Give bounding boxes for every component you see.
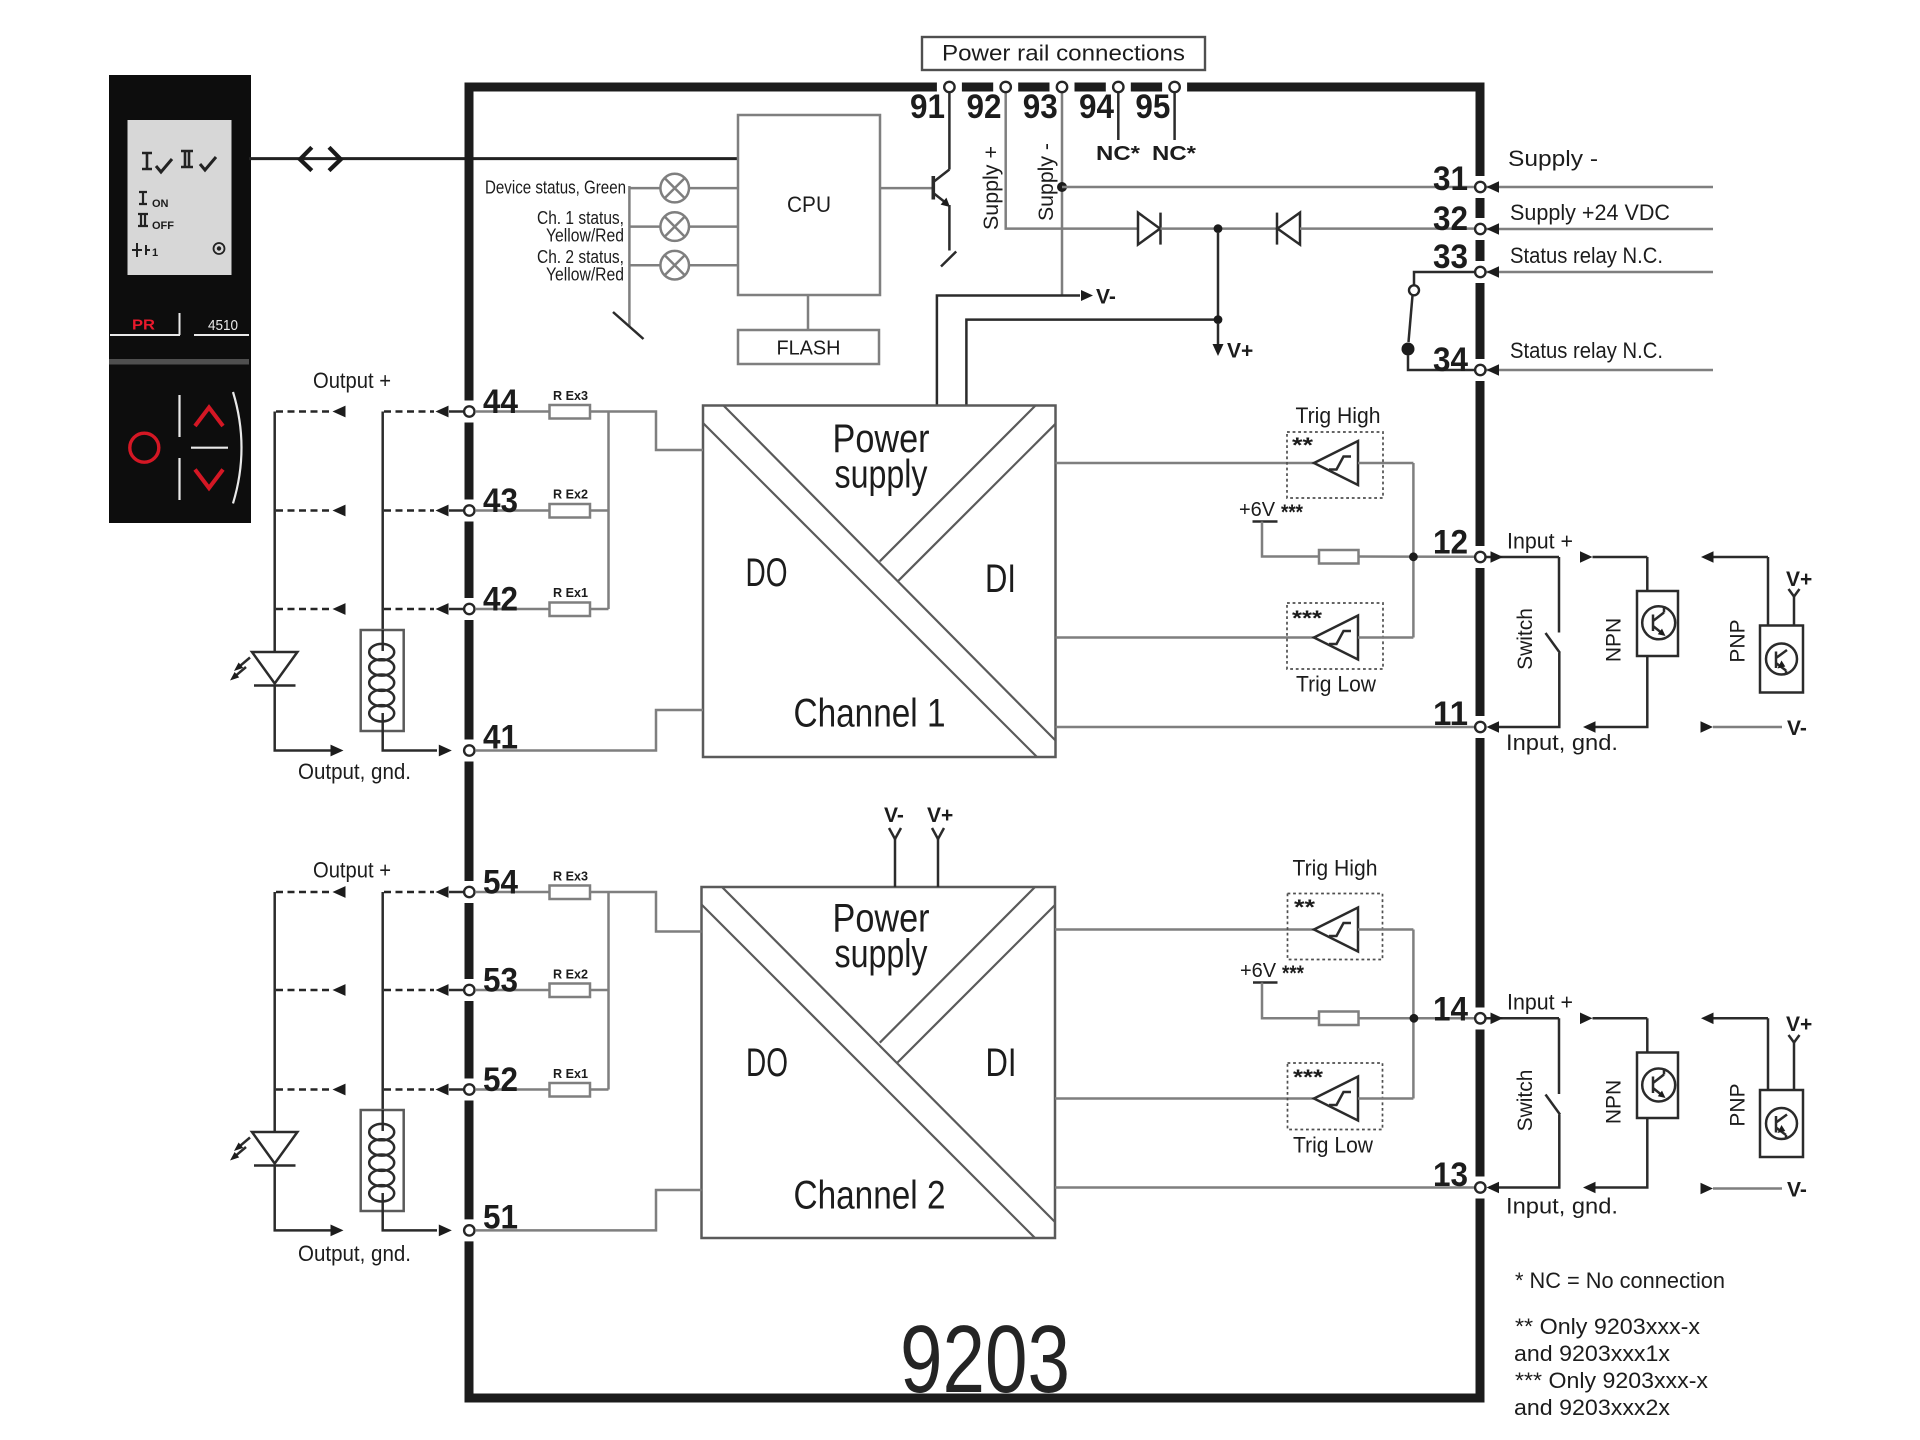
dashed load line 44 bbox=[276, 410, 331, 413]
svg-text:NC*: NC* bbox=[1096, 143, 1140, 165]
comm double-arrow chevrons bbox=[300, 147, 312, 170]
svg-text:R Ex3: R Ex3 bbox=[553, 388, 588, 403]
svg-text:92: 92 bbox=[967, 88, 1002, 126]
V- net arrow bbox=[1081, 290, 1093, 301]
svg-text:Input, gnd.: Input, gnd. bbox=[1506, 730, 1618, 755]
external line: Supply - into terminal 31 bbox=[1486, 186, 1713, 189]
svg-text:V-: V- bbox=[1787, 1179, 1807, 1202]
Trig High dashed frame (ch1) bbox=[1287, 432, 1383, 498]
wire: resistor to terminal 14 bbox=[1359, 1017, 1475, 1020]
svg-text:Input +: Input + bbox=[1507, 990, 1573, 1015]
terminal 53 bbox=[464, 985, 474, 995]
node: input 12 junction bbox=[1409, 552, 1418, 561]
svg-text:Supply +24 VDC: Supply +24 VDC bbox=[1510, 200, 1670, 225]
switch S2 (ch2) bbox=[1558, 1018, 1561, 1094]
svg-text:DI: DI bbox=[985, 557, 1016, 601]
resistor R Ex2 (ch1) bbox=[550, 504, 591, 518]
svg-text:51: 51 bbox=[483, 1199, 518, 1237]
svg-text:Output, gnd.: Output, gnd. bbox=[298, 1241, 411, 1266]
Power rail connections label box bbox=[922, 37, 1205, 70]
wire: terminal 12 to switch (ch1) bbox=[1486, 556, 1560, 559]
svg-text:9203: 9203 bbox=[900, 1306, 1070, 1413]
wire: R Ex1 to bus bbox=[590, 608, 609, 611]
wire: DI ch2 to Trig High comparator bbox=[1055, 928, 1314, 931]
svg-text:11: 11 bbox=[1433, 695, 1468, 733]
NPN sensor box (ch2) bbox=[1637, 1053, 1678, 1119]
keypad divider lines (white) bbox=[180, 392, 242, 503]
svg-text:**: ** bbox=[1292, 434, 1314, 457]
svg-text:DI: DI bbox=[986, 1041, 1017, 1085]
svg-text:34: 34 bbox=[1433, 341, 1468, 379]
svg-text:33: 33 bbox=[1433, 238, 1468, 276]
comparator U2 Trig High (ch1) bbox=[1314, 441, 1358, 485]
svg-text:Power rail connections: Power rail connections bbox=[942, 41, 1185, 66]
dashed load line 54 bbox=[276, 891, 331, 894]
switch S1 (ch1) bbox=[1558, 557, 1561, 633]
LED: device status bbox=[660, 174, 689, 203]
comparator U6 Trig Low (ch2) bbox=[1314, 1077, 1358, 1121]
terminal 14 bbox=[1475, 1013, 1485, 1023]
svg-text:V-: V- bbox=[884, 804, 904, 827]
resistor bus (ch1) bbox=[607, 412, 610, 610]
LCD row2: I ON bbox=[139, 192, 147, 204]
wire: terminal 95 stub bbox=[1173, 93, 1176, 140]
wire: DI ch1 to Trig High comparator bbox=[1056, 462, 1315, 465]
terminal 33 bbox=[1475, 267, 1485, 277]
module divider lines bbox=[110, 313, 249, 335]
svg-text:Status relay N.C.: Status relay N.C. bbox=[1510, 243, 1663, 268]
svg-text:***: *** bbox=[1281, 501, 1304, 524]
U1 isolation diagonal band (TL-BR) bbox=[703, 423, 1037, 757]
terminal 93 bbox=[1057, 82, 1067, 92]
border: right side with terminal gaps bbox=[1476, 83, 1485, 1403]
wire: PNP return to V- (ch2) bbox=[1713, 1187, 1782, 1190]
svg-text:Input, gnd.: Input, gnd. bbox=[1506, 1194, 1618, 1219]
svg-text:Output +: Output + bbox=[313, 368, 391, 393]
svg-text:CPU: CPU bbox=[787, 192, 831, 217]
svg-text:DO: DO bbox=[746, 1041, 788, 1085]
svg-text:NPN: NPN bbox=[1603, 1080, 1626, 1124]
resistor bus (ch2) bbox=[607, 892, 610, 1090]
wire: Trig High output (ch1) bbox=[1358, 462, 1413, 465]
wire: DI ch2 to terminal 13 bbox=[1055, 1186, 1475, 1189]
dashed load line 52 bbox=[276, 1088, 331, 1091]
terminal 42 bbox=[464, 604, 474, 614]
wire: terminal 12 to NPN sensor (ch1) bbox=[1593, 556, 1648, 559]
external line: Status relay N.C. into terminal 34 bbox=[1486, 369, 1713, 372]
wire: terminal 43 to R Ex2 bbox=[476, 509, 550, 512]
output gnd arrow (LED branch, ch1) bbox=[331, 745, 344, 757]
svg-text:Trig High: Trig High bbox=[1296, 403, 1381, 428]
svg-text:PNP: PNP bbox=[1727, 1083, 1750, 1126]
transistor Q1 base wire bbox=[880, 187, 933, 190]
wire: terminal 93 Supply - drop bbox=[1061, 93, 1064, 296]
svg-text:91: 91 bbox=[910, 88, 945, 126]
LCD row1: channel I check bbox=[142, 153, 172, 172]
svg-text:Output +: Output + bbox=[313, 858, 391, 883]
svg-text:14: 14 bbox=[1433, 991, 1468, 1029]
pull-up resistor (ch2) bbox=[1319, 1012, 1359, 1026]
svg-text:Supply +: Supply + bbox=[980, 146, 1003, 230]
svg-text:** Only 9203xxx-x: ** Only 9203xxx-x bbox=[1515, 1314, 1700, 1339]
svg-text:PR: PR bbox=[132, 317, 155, 334]
svg-text:Yellow/Red: Yellow/Red bbox=[546, 226, 624, 246]
terminal 44 bbox=[464, 406, 474, 416]
node: input 14 junction bbox=[1410, 1014, 1419, 1023]
svg-text:42: 42 bbox=[483, 581, 518, 619]
LCD row3: II OFF bbox=[138, 214, 148, 226]
wire: terminal 14 to NPN sensor (ch2) bbox=[1593, 1017, 1648, 1020]
svg-text:Channel 2: Channel 2 bbox=[794, 1174, 946, 1218]
resistor R Ex2 (ch2) bbox=[550, 984, 591, 998]
wire: DI ch1 to Trig Low comparator bbox=[1056, 636, 1315, 639]
wire: terminal 42 to R Ex1 bbox=[476, 608, 550, 611]
svg-text:*** Only 9203xxx-x: *** Only 9203xxx-x bbox=[1515, 1368, 1708, 1393]
terminal 11 bbox=[1475, 722, 1485, 732]
LCD row1: channel II check bbox=[181, 151, 216, 170]
wire: terminal 14 to switch (ch2) bbox=[1486, 1017, 1560, 1020]
terminal 51 bbox=[464, 1225, 474, 1235]
node: V+ junction bbox=[1214, 315, 1223, 324]
wire: terminal 51 to DO gnd (ch2) bbox=[476, 1190, 702, 1230]
terminal 32 bbox=[1475, 224, 1485, 234]
svg-text:54: 54 bbox=[483, 864, 518, 902]
wire: D2 to terminal 32 bbox=[1300, 227, 1475, 230]
relay K1 moving arm bbox=[1409, 296, 1413, 343]
coil load rail (ch1) bbox=[381, 412, 384, 631]
svg-text:NC*: NC* bbox=[1152, 143, 1196, 165]
wire: NPN to input gnd (ch1) bbox=[1595, 656, 1647, 727]
terminal 95 bbox=[1169, 82, 1179, 92]
diode D1 bbox=[1138, 213, 1161, 245]
svg-text:supply: supply bbox=[835, 453, 928, 497]
svg-text:31: 31 bbox=[1433, 160, 1468, 198]
wire: +6V to resistor (ch2) bbox=[1262, 983, 1319, 1019]
terminal 31 bbox=[1475, 182, 1485, 192]
relay K1 wire from terminal 33 bbox=[1414, 272, 1475, 285]
comparator U5 Trig High (ch2) bbox=[1314, 908, 1358, 952]
svg-text:Status relay N.C.: Status relay N.C. bbox=[1510, 338, 1663, 363]
svg-text:Device status, Green: Device status, Green bbox=[485, 178, 626, 198]
wire: NPN to input gnd (ch2) bbox=[1595, 1118, 1647, 1188]
wire: coil to output gnd (ch1) bbox=[383, 731, 437, 751]
LED load D4 (ch2) bbox=[252, 1132, 297, 1164]
svg-text:43: 43 bbox=[483, 482, 518, 520]
wire: module to CPU bbox=[249, 157, 738, 160]
FLASH block bbox=[738, 330, 879, 364]
NPN sensor box (ch1) bbox=[1637, 591, 1678, 656]
wire: Trig Low output (ch2) bbox=[1358, 1097, 1413, 1100]
Trig Low dashed frame (ch1) bbox=[1287, 603, 1383, 669]
relay K1 common node bbox=[1402, 343, 1415, 356]
comparator U3 Trig Low (ch1) bbox=[1314, 616, 1358, 660]
wire: R Ex3 to DO input (ch1) bbox=[590, 412, 703, 451]
resistor R Ex3 (ch2) bbox=[550, 886, 591, 900]
svg-text:44: 44 bbox=[483, 383, 518, 421]
wire: DI ch1 to terminal 11 bbox=[1056, 726, 1475, 729]
node: V+ tap on supply line bbox=[1214, 224, 1223, 233]
dashed load line 53 bbox=[276, 989, 331, 992]
wire: Q1 emitter bbox=[948, 205, 951, 251]
terminal 41 bbox=[464, 745, 474, 755]
wire: terminal 92 Supply + drop bbox=[1006, 93, 1138, 229]
svg-text:and 9203xxx1x: and 9203xxx1x bbox=[1514, 1341, 1670, 1366]
svg-text:***: *** bbox=[1293, 1066, 1324, 1089]
wire: ch1 status LED row bbox=[629, 225, 738, 228]
wire: V- rail to channel 1 bbox=[937, 296, 1080, 406]
terminal 54 bbox=[464, 887, 474, 897]
svg-text:4510: 4510 bbox=[208, 317, 238, 334]
external line: Status relay N.C. into terminal 33 bbox=[1486, 271, 1713, 274]
svg-text:and 9203xxx2x: and 9203xxx2x bbox=[1514, 1395, 1670, 1420]
wire: CPU to FLASH bbox=[807, 295, 810, 330]
resistor R Ex1 (ch2) bbox=[550, 1083, 591, 1097]
svg-text:95: 95 bbox=[1135, 88, 1170, 126]
svg-text:93: 93 bbox=[1023, 88, 1058, 126]
wire: Q1 collector to terminal 91 bbox=[948, 93, 951, 170]
dashed load line 42 bbox=[276, 608, 331, 611]
border: bottom side bbox=[465, 1394, 1485, 1403]
svg-text:V-: V- bbox=[1787, 717, 1807, 740]
wire: terminal 53 to R Ex2 bbox=[476, 989, 550, 992]
diode D2 bbox=[1277, 213, 1300, 245]
svg-text:V+: V+ bbox=[1786, 568, 1812, 591]
svg-text:Trig Low: Trig Low bbox=[1293, 1133, 1373, 1158]
svg-text:Output, gnd.: Output, gnd. bbox=[298, 759, 411, 784]
channel 2 function block U4 bbox=[702, 887, 1056, 1238]
terminal 43 bbox=[464, 505, 474, 515]
LED driver bus bbox=[628, 186, 631, 326]
wire: R Ex2 to bus bbox=[590, 509, 609, 512]
svg-text:PNP: PNP bbox=[1727, 619, 1750, 662]
wire: PNP sensor to terminal 14 (ch2) bbox=[1713, 1017, 1768, 1020]
resistor R Ex3 (ch1) bbox=[550, 405, 591, 419]
terminal 91 bbox=[944, 82, 954, 92]
terminal 94 bbox=[1113, 82, 1123, 92]
terminal 13 bbox=[1475, 1182, 1485, 1192]
V+ net arrow down bbox=[1217, 324, 1220, 346]
wire: +6V to resistor (ch1) bbox=[1262, 522, 1319, 557]
wire: terminal 44 to R Ex3 bbox=[476, 410, 550, 413]
relay K1 wire to terminal 34 bbox=[1408, 356, 1475, 371]
svg-text:* NC = No connection: * NC = No connection bbox=[1515, 1268, 1725, 1293]
node: supply- junction bbox=[1057, 182, 1067, 192]
keypad up chevron (red) bbox=[195, 408, 223, 427]
LED load D3 (ch1) bbox=[252, 652, 297, 684]
LED light arrows (ch1) bbox=[239, 658, 250, 667]
svg-text:OFF: OFF bbox=[152, 220, 174, 232]
wire: PNP return to V- (ch1) bbox=[1713, 726, 1782, 729]
coil load L2 (ch2) bbox=[361, 1110, 404, 1211]
Trig High dashed frame (ch2) bbox=[1288, 894, 1383, 960]
channel 1 function block U1 bbox=[703, 406, 1056, 758]
module gray stripe bbox=[109, 359, 249, 365]
svg-text:supply: supply bbox=[835, 932, 928, 976]
svg-text:**: ** bbox=[1294, 896, 1316, 919]
wire: V+ rail to channel 1 bbox=[966, 233, 1218, 406]
LED light arrows (ch2) bbox=[239, 1138, 250, 1147]
PNP sensor box (ch1) bbox=[1760, 626, 1803, 693]
wire: Trig Low output (ch1) bbox=[1358, 636, 1413, 639]
svg-text:53: 53 bbox=[483, 962, 518, 1000]
svg-text:Switch: Switch bbox=[1514, 608, 1537, 670]
U1 isolation half band (TR-center) bbox=[880, 406, 1036, 562]
U4 isolation half band (TR-center) bbox=[880, 887, 1035, 1043]
wire: ch2 status LED row bbox=[629, 264, 738, 267]
LED: ch1 status bbox=[660, 212, 689, 241]
dashed load line 43 bbox=[276, 509, 331, 512]
LED bus switch slash bbox=[613, 312, 644, 339]
svg-text:Trig High: Trig High bbox=[1293, 856, 1378, 881]
svg-text:Input +: Input + bbox=[1507, 529, 1573, 554]
wire: terminal 41 to DO gnd (ch1) bbox=[476, 710, 703, 751]
output gnd arrow (LED branch, ch2) bbox=[331, 1225, 344, 1237]
svg-text:Channel 1: Channel 1 bbox=[794, 692, 946, 736]
svg-text:Switch: Switch bbox=[1514, 1070, 1537, 1132]
svg-text:52: 52 bbox=[483, 1061, 518, 1099]
pull-up resistor (ch1) bbox=[1319, 550, 1359, 564]
resistor R Ex1 (ch1) bbox=[550, 603, 591, 617]
svg-text:32: 32 bbox=[1433, 200, 1468, 238]
Trig Low dashed frame (ch2) bbox=[1288, 1063, 1383, 1130]
svg-text:94: 94 bbox=[1079, 88, 1114, 126]
svg-text:NPN: NPN bbox=[1603, 618, 1626, 662]
LCD row4: record dot icon bbox=[214, 243, 225, 254]
svg-text:***: *** bbox=[1282, 962, 1305, 985]
transistor Q1 bbox=[933, 170, 949, 204]
wire: coil to output gnd (ch2) bbox=[383, 1211, 437, 1230]
PR 4510 LCD screen bbox=[128, 120, 232, 275]
border: left side with terminal gaps bbox=[465, 83, 474, 1403]
wire: R Ex3 to DO input (ch2) bbox=[590, 892, 702, 932]
wire: terminal 94 stub bbox=[1117, 93, 1120, 140]
LED: ch2 status bbox=[660, 251, 689, 280]
external line: Supply +24 VDC into terminal 32 bbox=[1486, 228, 1713, 231]
svg-text:R Ex3: R Ex3 bbox=[553, 869, 588, 884]
wire: D1 to D2 bbox=[1161, 227, 1278, 230]
wire: R Ex1 to bus bbox=[590, 1088, 609, 1091]
svg-text:V+: V+ bbox=[1227, 340, 1253, 363]
svg-text:V-: V- bbox=[1096, 286, 1116, 309]
terminal 34 bbox=[1475, 365, 1485, 375]
PR 4510 display module body bbox=[109, 75, 251, 523]
svg-text:V+: V+ bbox=[927, 804, 953, 827]
svg-text:12: 12 bbox=[1433, 524, 1468, 562]
coil load L1 (ch1) bbox=[361, 630, 404, 731]
relay K1 fixed contact bbox=[1409, 285, 1419, 295]
wire: terminal 52 to R Ex1 bbox=[476, 1088, 550, 1091]
svg-text:1: 1 bbox=[152, 247, 158, 259]
svg-text:R Ex2: R Ex2 bbox=[553, 487, 588, 502]
svg-text:Supply -: Supply - bbox=[1508, 146, 1598, 171]
svg-text:+6V: +6V bbox=[1239, 499, 1276, 521]
wire: DI ch2 to Trig Low comparator bbox=[1055, 1097, 1314, 1100]
svg-text:V+: V+ bbox=[1786, 1013, 1812, 1036]
terminal 12 bbox=[1475, 552, 1485, 562]
svg-text:***: *** bbox=[1292, 607, 1323, 630]
svg-text:FLASH: FLASH bbox=[777, 338, 841, 360]
keypad OK ring (red) bbox=[130, 433, 159, 462]
svg-text:ON: ON bbox=[152, 198, 169, 210]
CPU block bbox=[738, 115, 880, 295]
border: top side with dashes between power rail terminals bbox=[465, 83, 1485, 92]
svg-text:DO: DO bbox=[746, 551, 788, 595]
Q1 emitter switch slash bbox=[941, 252, 956, 267]
wire: resistor to terminal 12 bbox=[1359, 555, 1475, 558]
svg-text:Yellow/Red: Yellow/Red bbox=[546, 265, 624, 285]
svg-text:R Ex2: R Ex2 bbox=[553, 967, 588, 982]
wire: Trig High output (ch2) bbox=[1358, 928, 1413, 931]
svg-text:R Ex1: R Ex1 bbox=[553, 1066, 588, 1081]
svg-text:Supply -: Supply - bbox=[1035, 143, 1058, 221]
wire: device status LED row bbox=[629, 187, 738, 190]
PNP sensor box (ch2) bbox=[1760, 1090, 1803, 1157]
wire: R Ex2 to bus bbox=[590, 989, 609, 992]
svg-text:41: 41 bbox=[483, 719, 518, 757]
keypad down chevron (red) bbox=[195, 470, 223, 489]
svg-text:R Ex1: R Ex1 bbox=[553, 585, 588, 600]
LCD row4: setup glyph bbox=[132, 243, 158, 259]
wire: supply- to terminal 31 bbox=[1062, 186, 1475, 189]
coil load rail (ch2) bbox=[381, 892, 384, 1110]
svg-text:Trig Low: Trig Low bbox=[1296, 672, 1376, 697]
wire: PNP sensor to terminal 12 (ch1) bbox=[1713, 556, 1768, 559]
comparator output bus (ch1) bbox=[1412, 463, 1415, 638]
U4 isolation diagonal band (TL-BR) bbox=[702, 905, 1036, 1239]
terminal 92 bbox=[1001, 82, 1011, 92]
svg-text:13: 13 bbox=[1433, 1156, 1468, 1194]
terminal 52 bbox=[464, 1084, 474, 1094]
wire: terminal 54 to R Ex3 bbox=[476, 891, 550, 894]
LED load rail (ch2) bbox=[275, 892, 331, 1230]
comparator output bus (ch2) bbox=[1412, 930, 1415, 1099]
LED load rail (ch1) bbox=[275, 412, 331, 751]
svg-text:+6V: +6V bbox=[1240, 960, 1277, 982]
